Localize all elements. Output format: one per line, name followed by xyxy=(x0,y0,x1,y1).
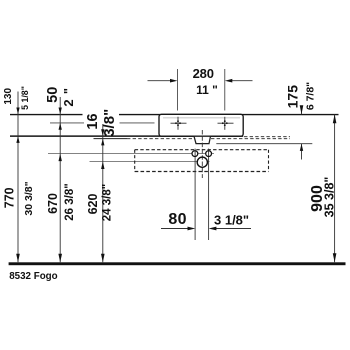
svg-text:50: 50 xyxy=(45,87,61,103)
svg-text:3/8": 3/8" xyxy=(101,109,118,137)
svg-text:35 3/8": 35 3/8" xyxy=(322,177,336,218)
svg-text:5 1/8": 5 1/8" xyxy=(20,86,30,110)
svg-text:280: 280 xyxy=(193,66,214,81)
svg-text:16: 16 xyxy=(85,113,101,129)
svg-text:670: 670 xyxy=(46,193,60,214)
svg-text:620: 620 xyxy=(86,194,100,215)
svg-text:770: 770 xyxy=(3,187,17,208)
svg-text:6 7/8": 6 7/8" xyxy=(305,82,317,110)
svg-text:30 3/8": 30 3/8" xyxy=(23,181,35,215)
svg-text:80: 80 xyxy=(168,211,186,228)
svg-text:24 3/8": 24 3/8" xyxy=(102,184,114,221)
svg-text:11 ": 11 " xyxy=(196,83,218,97)
svg-text:26 3/8": 26 3/8" xyxy=(64,183,76,220)
svg-text:8532 Fogo: 8532 Fogo xyxy=(9,271,57,282)
svg-text:2 ": 2 " xyxy=(61,87,76,106)
svg-text:130: 130 xyxy=(3,88,14,105)
svg-text:175: 175 xyxy=(285,85,301,109)
svg-text:3 1/8": 3 1/8" xyxy=(214,212,249,227)
